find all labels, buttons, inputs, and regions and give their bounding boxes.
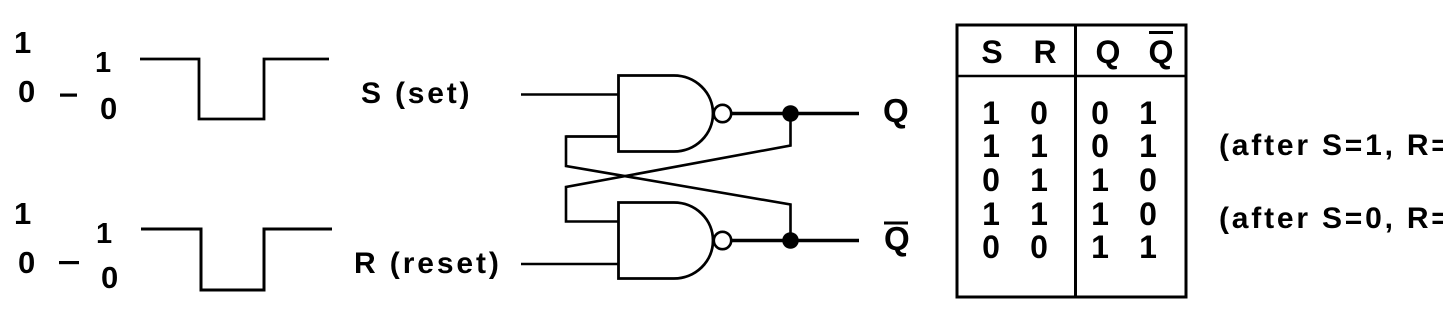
truth table outer border [957,25,1186,297]
svg-text:1: 1 [982,95,1000,131]
svg-text:0: 0 [982,229,1000,265]
wire R input to gate U2 [521,263,618,266]
svg-text:0: 0 [100,91,117,126]
wire Q feedback to gate U2 [566,117,791,222]
svg-text:0: 0 [1139,162,1157,198]
svg-text:0: 0 [1091,128,1109,164]
svg-text:Q: Q [884,220,910,257]
svg-text:1: 1 [1139,229,1157,265]
NAND gate U2 inversion bubble [714,232,731,249]
svg-text:0: 0 [982,162,1000,198]
junction node Q [782,105,799,122]
svg-text:Q: Q [883,92,909,129]
svg-text:0: 0 [1030,95,1048,131]
S input waveform [140,59,329,119]
svg-text:0: 0 [1030,229,1048,265]
svg-text:1: 1 [982,196,1000,232]
svg-text:0: 0 [1091,95,1109,131]
svg-text:1: 1 [95,47,111,79]
wire feedback input to gate U1 [566,135,618,138]
svg-text:Q: Q [1096,34,1121,70]
svg-text:S (set): S (set) [361,77,472,110]
svg-text:1: 1 [1030,128,1048,164]
R input waveform [141,229,332,290]
svg-text:R (reset): R (reset) [354,247,502,280]
NAND gate U1 body [619,76,714,152]
svg-text:1: 1 [14,25,31,60]
S waveform tick dash [60,94,77,97]
svg-text:1: 1 [96,218,112,250]
svg-text:R: R [1033,34,1056,70]
svg-text:1: 1 [1139,128,1157,164]
svg-text:1: 1 [14,196,31,231]
junction node Qbar [782,232,799,249]
svg-text:0: 0 [18,245,35,280]
truth table header separator [957,75,1186,78]
svg-text:1: 1 [982,128,1000,164]
wire Q output [732,112,860,115]
svg-text:1: 1 [1091,229,1109,265]
table header Qbar overbar [1149,31,1173,34]
svg-text:0: 0 [1139,196,1157,232]
svg-text:0: 0 [18,74,35,109]
truth table column divider [1074,25,1077,297]
svg-text:(after S=0, R=1): (after S=0, R=1) [1219,202,1443,235]
svg-text:(after S=1, R=0): (after S=1, R=0) [1219,129,1443,162]
NAND gate U1 inversion bubble [714,105,731,122]
NAND gate U2 body [619,203,714,279]
svg-text:Q: Q [1149,34,1174,70]
svg-text:S: S [981,34,1002,70]
wire S input to gate U1 [521,93,618,96]
wire Qbar feedback to gate U1 [566,137,791,238]
R waveform tick dash [59,261,79,264]
svg-text:1: 1 [1139,95,1157,131]
label Qbar overbar [884,222,908,225]
wire Qbar output [732,239,860,242]
svg-text:1: 1 [1030,162,1048,198]
svg-text:1: 1 [1091,196,1109,232]
svg-text:0: 0 [101,260,118,295]
svg-text:1: 1 [1030,196,1048,232]
svg-text:1: 1 [1091,162,1109,198]
